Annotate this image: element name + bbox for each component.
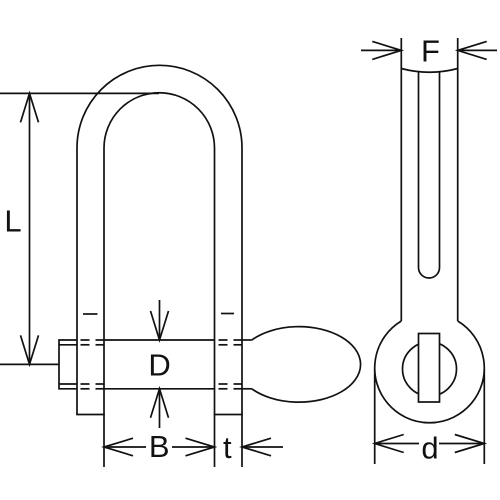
pin circle xyxy=(403,342,457,396)
d dimension line right xyxy=(439,443,484,445)
pin head chamfer line bottom xyxy=(59,383,77,385)
shackle bow inner outline xyxy=(104,93,215,415)
D bottom arrow xyxy=(159,389,161,428)
B dimension line right segment xyxy=(172,446,215,448)
svg-text:D: D xyxy=(148,348,170,383)
pin stub to toggle bottom xyxy=(242,388,252,390)
left leg bottom cap xyxy=(76,414,105,416)
pin toggle ellipse xyxy=(252,327,361,403)
side view left outline xyxy=(400,38,402,321)
side slot left line xyxy=(418,72,420,268)
shackle bow outer outline xyxy=(77,65,242,414)
D top arrow xyxy=(159,300,161,340)
svg-text:L: L xyxy=(4,204,21,239)
side view right outline xyxy=(457,38,459,321)
L top extension line xyxy=(0,92,159,94)
pin shank top edge xyxy=(104,339,215,341)
F left arrowhead xyxy=(372,41,401,59)
extension line B left xyxy=(103,415,105,468)
svg-text:t: t xyxy=(223,430,232,465)
F right arrowhead xyxy=(458,41,487,59)
d right extension line xyxy=(483,369,485,464)
B dimension line left segment xyxy=(104,446,146,448)
extension line t right xyxy=(241,415,243,468)
d dimension line left xyxy=(375,443,419,445)
L dimension line xyxy=(29,93,31,364)
extension line B/t middle xyxy=(214,415,216,468)
F dimension line right xyxy=(458,49,497,51)
side view top arc xyxy=(401,69,457,73)
F dimension line left xyxy=(361,49,401,51)
hidden thread dashes left leg xyxy=(81,340,104,389)
pin head chamfer line top xyxy=(59,344,77,346)
svg-text:d: d xyxy=(421,431,438,466)
t right arrow xyxy=(242,446,283,448)
d left extension line xyxy=(374,369,376,464)
d right arrowhead xyxy=(455,435,485,453)
side slot right line xyxy=(439,72,441,268)
side slot bottom cap xyxy=(419,268,440,279)
B left arrowhead xyxy=(104,438,133,456)
hidden thread dashes right leg xyxy=(219,340,242,389)
left leg thread tick xyxy=(83,313,98,315)
L bottom arrowhead xyxy=(21,335,39,364)
L top arrowhead xyxy=(21,93,39,122)
svg-text:F: F xyxy=(421,34,440,69)
right leg bottom cap xyxy=(214,414,243,416)
d left arrowhead xyxy=(375,435,404,453)
eye outline xyxy=(375,321,485,423)
pin head outline xyxy=(59,340,77,389)
pin stub to toggle top xyxy=(242,339,252,341)
svg-text:B: B xyxy=(149,429,170,464)
L bottom extension line xyxy=(0,363,59,365)
B right arrowhead xyxy=(186,438,215,456)
right leg thread tick xyxy=(221,313,234,315)
toggle end rectangle xyxy=(419,334,440,403)
pin shank bottom edge xyxy=(104,388,215,390)
